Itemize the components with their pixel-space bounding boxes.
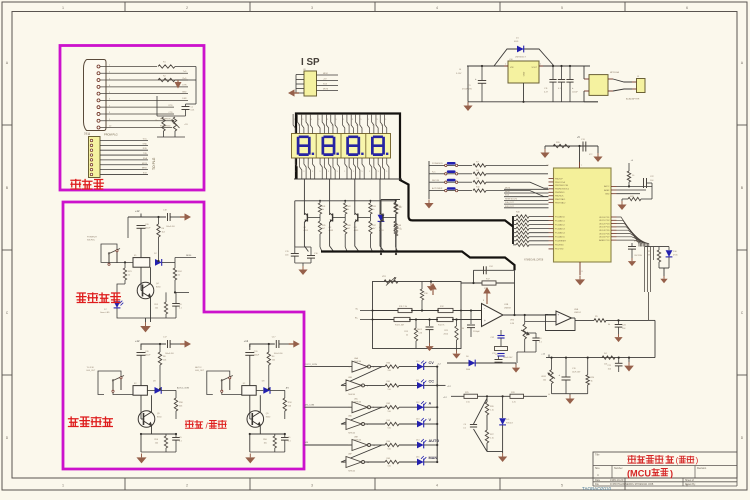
svg-text:DSR: DSR: [182, 98, 187, 100]
svg-text:AVCC: AVCC: [604, 185, 610, 188]
svg-text:6: 6: [686, 6, 688, 10]
wire LED cathode bus: [436, 367, 438, 462]
title block outline: [593, 452, 737, 478]
svg-text:3: 3: [311, 484, 313, 488]
wire pot bottom: [157, 136, 185, 138]
svg-text:RTS: RTS: [169, 105, 174, 107]
ground supply left: [467, 102, 469, 106]
wire inverter output row CC: [365, 384, 386, 386]
resistor R1: [158, 65, 175, 68]
wire switch leads: [113, 392, 133, 394]
LED D3 indicator: [117, 284, 125, 301]
svg-text:GND: GND: [182, 91, 187, 93]
wire header J2 leads: [100, 139, 148, 175]
wire analog loop box: [373, 282, 462, 349]
svg-text:11: 11: [343, 462, 345, 464]
wire ISP right pins: [317, 73, 339, 91]
wire pot rail: [156, 96, 158, 116]
bus lower analog thick: [321, 252, 515, 271]
diode D6 on rail: [469, 360, 476, 367]
svg-text:PC0/ADC0: PC0/ADC0: [555, 215, 566, 218]
capacitor C13 above MCU: [582, 142, 584, 152]
wire U5B input stubs: [548, 314, 556, 316]
svg-text:GND: GND: [524, 71, 526, 76]
power arrow node VCC: [188, 79, 196, 81]
capacitor C17 decouple: [275, 340, 277, 348]
svg-text:CC: CC: [429, 380, 435, 384]
wire bracket triangle: [474, 398, 488, 424]
wire reference rail: [451, 395, 547, 397]
transistor Q block: [247, 411, 264, 428]
svg-text:PC2/ADC2: PC2/ADC2: [555, 223, 566, 226]
svg-text:74HC04: 74HC04: [348, 432, 355, 434]
ground C23: [618, 334, 620, 337]
svg-text:2: 2: [186, 484, 188, 488]
svg-text:1k: 1k: [347, 209, 349, 211]
svg-text:2: 2: [323, 125, 324, 127]
svg-text:RESET(OUT): RESET(OUT): [505, 198, 518, 200]
svg-text:PC1/ADC1: PC1/ADC1: [555, 219, 566, 222]
LED D15 MAN: [417, 459, 424, 466]
potentiometer VR2: [551, 358, 553, 370]
svg-text:POWERON: POWERON: [432, 163, 443, 165]
wire link row 2 to MCU: [486, 173, 548, 175]
transistor Q block: [138, 411, 155, 428]
wire ISP left pins: [296, 75, 304, 94]
resistor R emitter vertical: [274, 434, 276, 436]
capacitor C emitter: [284, 434, 286, 437]
svg-text:TXD: TXD: [143, 153, 148, 155]
capacitor C26: [429, 320, 431, 327]
svg-text:SECON: SECON: [432, 180, 440, 182]
svg-text:AO/CC_GON: AO/CC_GON: [177, 387, 190, 390]
LED D10: [668, 247, 670, 250]
wire to LED row CC: [399, 384, 417, 386]
wire LED to bus V: [424, 423, 437, 425]
resistor R24 vertical: [174, 262, 176, 268]
resistor R65 row: [385, 460, 399, 463]
svg-text:3: 3: [352, 119, 353, 121]
capacitor C15: [294, 247, 296, 253]
svg-text:U6D: U6D: [348, 416, 353, 418]
MCU left pin group1: [549, 178, 571, 204]
inverter U6D: [346, 419, 362, 430]
svg-text:LM7805CT: LM7805CT: [515, 57, 526, 59]
svg-text:I SP: I SP: [301, 57, 320, 68]
wire collector to relay: [259, 395, 261, 412]
wire LED to bus AUTO: [424, 444, 437, 446]
capacitor C20 polarized: [137, 352, 146, 354]
svg-text:Date: Date: [595, 479, 601, 482]
svg-text:R13 1.3M: R13 1.3M: [395, 325, 404, 327]
wire driver collector drop Q1: [304, 222, 308, 252]
svg-text:ACADAPTER: ACADAPTER: [626, 98, 640, 101]
svg-text:7: 7: [581, 165, 582, 167]
resistor R22 output: [594, 319, 606, 322]
svg-text:+12: +12: [135, 209, 140, 213]
svg-text:100uF-200: 100uF-200: [165, 353, 174, 355]
resistor pulldown R37: [319, 218, 321, 222]
resistor link row 4: [473, 189, 486, 192]
svg-text:3: 3: [302, 119, 303, 121]
MCU right pin group2: [599, 217, 616, 242]
resistor R28 horizontal: [628, 197, 641, 200]
border row ticks left/right: [2, 124, 12, 126]
svg-text:U6B: U6B: [348, 377, 353, 379]
ground above MCU right: [597, 146, 599, 153]
jumper link row 4: [429, 190, 445, 192]
svg-text:PB7/XTAL2: PB7/XTAL2: [555, 201, 566, 204]
svg-text:PB1/OC1A: PB1/OC1A: [555, 181, 565, 184]
svg-text:2: 2: [348, 125, 349, 127]
wire supply input rail: [467, 65, 590, 67]
svg-text:(MCU: (MCU: [627, 468, 651, 478]
svg-text:(: (: [676, 455, 679, 465]
capacitor C20 polarized: [245, 352, 254, 354]
svg-text:GND: GND: [143, 143, 148, 145]
capacitor C19a polarized: [137, 225, 146, 227]
resistor pulldown R38: [344, 218, 346, 222]
diode D5 zener: [502, 396, 504, 418]
svg-text:R42: R42: [347, 206, 350, 208]
ground filter: [569, 394, 571, 395]
svg-text:74HC04: 74HC04: [354, 439, 361, 441]
svg-text:5: 5: [561, 6, 563, 10]
svg-text:4: 4: [382, 165, 383, 167]
inverter U6E: [352, 440, 368, 451]
svg-text:100uF: 100uF: [145, 227, 151, 229]
svg-text:4k7: 4k7: [347, 228, 350, 230]
svg-text:TO PLG: TO PLG: [152, 157, 156, 170]
svg-text:MOSI: MOSI: [323, 88, 329, 90]
wire MCU GND pin bottom: [579, 262, 581, 275]
svg-text:Vr: Vr: [548, 393, 550, 396]
wire to LED row CV: [399, 366, 417, 368]
svg-text:GND: GND: [605, 194, 610, 196]
svg-text:1: 1: [62, 6, 64, 10]
wire inverter input loop: [341, 407, 382, 424]
wire link row 1 to MCU: [486, 164, 548, 166]
wire block top rail: [140, 344, 142, 350]
svg-text:TxD: TxD: [183, 71, 187, 73]
svg-text:5: 5: [561, 484, 563, 488]
resistor R15 vertical: [415, 320, 417, 329]
wire to LED row AUTO: [399, 444, 417, 446]
label dianyuan kaiguan red text: [77, 293, 87, 303]
svg-text:3: 3: [328, 171, 329, 173]
svg-text:1.1k: 1.1k: [490, 437, 494, 439]
wire inverter output row V: [365, 423, 386, 425]
svg-text:4: 4: [307, 125, 308, 127]
label shoudong/zidong red text: [186, 421, 194, 429]
svg-text:+12: +12: [135, 339, 140, 343]
svg-text:CCCV_CON: CCCV_CON: [305, 364, 318, 366]
svg-text:0k: 0k: [608, 324, 610, 326]
wire right out: [175, 419, 177, 434]
svg-text:D15: D15: [416, 457, 419, 459]
wire adapter links: [613, 79, 632, 82]
wire VR3 bottom to ground: [517, 351, 536, 353]
svg-text:100uF: 100uF: [572, 91, 578, 93]
wire driver rail left drop: [294, 201, 296, 247]
capacitor C27 polarized: [498, 357, 500, 360]
wire to LED row MAN: [399, 461, 417, 463]
transistor Q1: [303, 196, 305, 215]
wire display bottom rail: [294, 178, 402, 180]
power arrow U1B vcc: [486, 292, 488, 304]
wire inverter input net A/V_CON: [305, 406, 353, 408]
relay K coil: [133, 386, 147, 396]
svg-text:POWER-H: POWER-H: [87, 237, 97, 239]
resistor R26 vertical: [485, 402, 488, 415]
jumper link row 2: [429, 173, 445, 175]
svg-text:ACPOWER: ACPOWER: [432, 187, 443, 190]
display DS1-DS4 body: [292, 134, 391, 159]
svg-text:D14: D14: [416, 440, 419, 442]
resistor R6 block vertical: [268, 344, 270, 352]
svg-text:1: 1: [319, 119, 320, 121]
wire supply left drop: [467, 66, 469, 102]
svg-text:RXD: RXD: [143, 148, 148, 150]
connector J1 DB9 body: [84, 60, 107, 131]
capacitor C emitter: [175, 434, 177, 437]
svg-text:10k: 10k: [163, 359, 166, 361]
svg-text:4k7: 4k7: [322, 228, 325, 230]
svg-text:D10: D10: [416, 361, 419, 363]
ground link rows: [428, 200, 430, 204]
svg-text:7: 7: [343, 424, 344, 426]
svg-text:10uF-16V: 10uF-16V: [572, 371, 581, 373]
svg-text:U6A: U6A: [354, 357, 359, 360]
resistor R27 vertical: [485, 430, 488, 443]
svg-text:Drawn By:: Drawn By:: [685, 483, 696, 486]
svg-text:SW-PDC: SW-PDC: [87, 240, 96, 242]
resistor R26: [553, 144, 570, 147]
transistor Q2: [329, 196, 331, 215]
svg-text:UDC6/ PD7: UDC6/ PD7: [599, 237, 610, 239]
svg-text:5: 5: [311, 119, 312, 121]
resistor R6a vertical: [158, 217, 160, 224]
wire LED to bus CC: [424, 384, 437, 386]
svg-text:H-B_OUT: H-B_OUT: [195, 370, 205, 372]
relay K coil: [242, 386, 256, 396]
resistor R emitter A: [165, 292, 167, 300]
svg-text:1k: 1k: [128, 274, 130, 276]
svg-text:4: 4: [332, 165, 333, 167]
wire relay A to base: [140, 267, 142, 290]
wire regulator gnd pin: [523, 83, 525, 102]
svg-text:SCK: SCK: [505, 195, 510, 197]
svg-text:R41: R41: [322, 206, 325, 208]
resistor R25 rail: [464, 394, 478, 398]
ground C26: [429, 341, 431, 343]
svg-text:9-15V: 9-15V: [456, 73, 462, 75]
ground aref: [622, 198, 628, 200]
wire AVCC net right: [617, 185, 653, 187]
MCU left pin group2: [549, 215, 567, 250]
wire LED to bus A: [424, 406, 437, 408]
resistor R23 on rail: [602, 356, 615, 359]
svg-text:U6E: U6E: [354, 437, 359, 439]
svg-text:4: 4: [436, 484, 438, 488]
svg-text:R-B_OUT: R-B_OUT: [505, 206, 515, 208]
svg-text:R47: R47: [372, 225, 375, 227]
wire zener cluster top: [381, 199, 400, 201]
wire driver collector drop Q4: [380, 222, 384, 252]
svg-text:PROM PLG: PROM PLG: [104, 133, 118, 137]
svg-text:8: 8: [582, 271, 583, 273]
wire inverter input loop: [341, 445, 382, 462]
ground block: [249, 454, 251, 458]
wire switch leads: [222, 392, 242, 394]
svg-text:1: 1: [368, 119, 369, 121]
svg-text:VCC: VCC: [143, 139, 148, 141]
resistor R31 vertical: [394, 224, 397, 236]
relay K1 coil: [133, 258, 150, 268]
svg-text:Title: Title: [595, 453, 600, 456]
wire DB9 pin leads: [100, 65, 188, 128]
svg-text:U6C: U6C: [354, 399, 359, 401]
resistor R29 vertical: [658, 247, 660, 250]
wire driver +5 rail: [295, 200, 397, 202]
wire LED R loop bottom: [659, 267, 669, 269]
svg-text:PB2/SS/OC1B: PB2/SS/OC1B: [555, 185, 569, 187]
svg-text:4: 4: [331, 125, 332, 127]
wire LED down join: [117, 314, 146, 318]
svg-text:74HC04: 74HC04: [348, 394, 355, 396]
LED D11 CC: [417, 382, 424, 389]
diode D4 bypass arc: [494, 49, 554, 66]
svg-text:2: 2: [373, 165, 374, 167]
wire bracket bottom: [487, 451, 503, 453]
svg-text:Revision: Revision: [697, 467, 707, 470]
potentiometer R4: [173, 117, 176, 131]
wire inverter output row AUTO: [371, 444, 386, 446]
diode D freewheel: [155, 387, 162, 394]
svg-text:Sheet of: Sheet of: [685, 479, 694, 482]
svg-text:3: 3: [377, 119, 378, 121]
svg-text:5: 5: [312, 171, 313, 173]
wire relay A right: [162, 261, 175, 263]
resistor R63 row: [385, 422, 399, 425]
ground bracket: [502, 452, 504, 454]
wire display common cathode drops: [304, 179, 380, 196]
inverter U6C: [352, 402, 368, 413]
svg-text:4k7: 4k7: [372, 228, 375, 230]
svg-text:3: 3: [303, 171, 304, 173]
svg-text:100uF-16V: 100uF-16V: [503, 357, 513, 359]
magenta polygon power/relay region: [63, 202, 304, 469]
capacitor C11 C12 C13 output: [552, 66, 554, 80]
resistor R right vertical: [284, 390, 286, 398]
wire collector to relay: [151, 395, 153, 412]
wire U1B output: [503, 314, 556, 316]
svg-text:PB0/ICP: PB0/ICP: [555, 178, 563, 180]
wire relay to switch: [147, 389, 154, 391]
svg-text:3: 3: [311, 6, 313, 10]
svg-text:5: 5: [349, 407, 350, 409]
svg-text:2.2k: 2.2k: [512, 402, 516, 404]
svg-text:ATMEGA8_DIP28: ATMEGA8_DIP28: [524, 259, 544, 262]
wire link row 4 to MCU: [486, 191, 548, 197]
svg-text:R-A_OUT: R-A_OUT: [505, 201, 515, 204]
svg-text:MISO: MISO: [323, 73, 329, 75]
wire emitter down: [151, 426, 153, 434]
svg-text:100uF: 100uF: [254, 354, 260, 356]
svg-text:R45: R45: [322, 225, 325, 227]
svg-text:R11 7.3k: R11 7.3k: [399, 306, 407, 308]
svg-text:1k: 1k: [591, 380, 593, 382]
resistor R11: [398, 308, 412, 312]
wire rail stubs left: [360, 310, 373, 312]
svg-text:MOSI: MOSI: [505, 187, 511, 189]
resistor link row 2: [473, 172, 486, 175]
resistor R64 row: [385, 443, 399, 446]
diode D7 zener: [378, 215, 385, 222]
svg-text:5: 5: [361, 119, 362, 121]
wire relay coil to base: [140, 395, 142, 419]
svg-text:AREF: AREF: [604, 189, 610, 192]
wire inverter output row MAN: [365, 461, 386, 463]
svg-text:UDC4/ PD5: UDC4/ PD5: [599, 230, 610, 232]
diode D2 freewheel: [155, 259, 162, 266]
svg-text:R43: R43: [372, 206, 375, 208]
svg-text:1k: 1k: [372, 209, 374, 211]
svg-text:100uF: 100uF: [145, 354, 151, 356]
wire inverter input net SDI: [305, 444, 353, 446]
inverter U6F: [346, 457, 362, 468]
svg-text:R-C: R-C: [432, 171, 436, 173]
wire display segment fan bottom: [295, 158, 389, 179]
svg-text:PC5/ADC5: PC5/ADC5: [555, 236, 566, 239]
svg-text:2: 2: [186, 6, 188, 10]
svg-text:T-0 9-W: T-0 9-W: [87, 367, 94, 369]
resistor R61 row: [385, 384, 399, 387]
resistor R3 vertical: [162, 117, 165, 131]
wire MCU VCC pin top: [579, 162, 581, 168]
svg-text:10k: 10k: [155, 442, 158, 444]
wire right bundle verticals: [645, 247, 654, 321]
capacitor C21: [618, 358, 620, 363]
svg-text:74HC04: 74HC04: [354, 402, 361, 404]
capacitor C4 bracket: [470, 424, 477, 426]
resistor R28b rail: [510, 394, 524, 398]
svg-text:9: 9: [349, 445, 350, 447]
svg-text:+: +: [484, 319, 486, 323]
svg-text:LM324: LM324: [574, 312, 581, 314]
switch SW block: [112, 379, 114, 390]
svg-text:5: 5: [362, 171, 363, 173]
resistor R20 vertical: [587, 358, 589, 375]
svg-text:PC3/ADC3: PC3/ADC3: [555, 227, 566, 230]
svg-text:C26-F1: C26-F1: [415, 329, 423, 331]
svg-text:Rx: Rx: [156, 120, 158, 122]
wire right vertical j1 cluster: [195, 67, 197, 105]
capacitor C6: [525, 332, 536, 334]
svg-text:R14 7k: R14 7k: [438, 325, 444, 327]
LED D10 CV: [417, 363, 424, 370]
svg-text:OSC2/XH: OSC2/XH: [634, 255, 643, 257]
wire right bundle fan: [617, 217, 649, 247]
svg-text:SDA: SDA: [143, 157, 148, 160]
LED D12 A: [417, 404, 424, 411]
power arrow analog mid: [432, 288, 434, 295]
svg-text:MISO: MISO: [505, 191, 511, 193]
capacitor C30: [470, 311, 472, 325]
wire block A top rail: [140, 214, 142, 218]
svg-text:UDC1/ PD2: UDC1/ PD2: [599, 220, 610, 222]
wire zener left drop: [380, 200, 382, 215]
